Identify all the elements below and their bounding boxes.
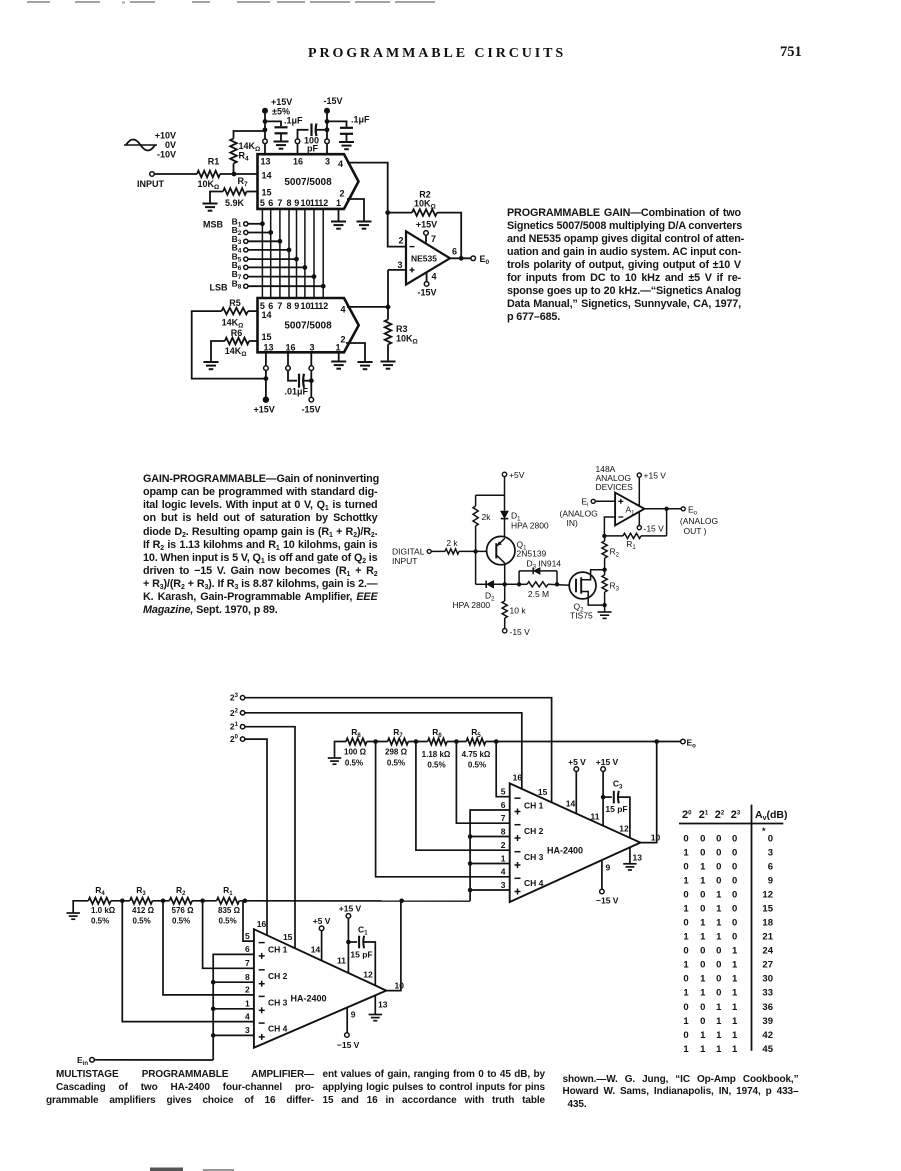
junction: output node (upper) <box>654 739 659 744</box>
svg-text:IN): IN) <box>567 518 579 528</box>
svg-text:0.5%: 0.5% <box>219 917 237 926</box>
svg-text:8: 8 <box>501 826 506 836</box>
svg-text:0: 0 <box>700 890 705 901</box>
svg-text:15: 15 <box>261 332 271 342</box>
svg-text:5007/5008: 5007/5008 <box>284 321 332 332</box>
svg-text:0: 0 <box>716 960 721 971</box>
wire: U2 pin 16 to cap <box>287 352 289 366</box>
wire: R6/R5 node to upper pin 7 <box>456 742 509 824</box>
junction: pin3/cap <box>309 378 314 383</box>
svg-text:LSB: LSB <box>210 283 229 293</box>
svg-text:0.5%: 0.5% <box>387 759 405 768</box>
wire: B6 to bus line 6 <box>248 266 305 268</box>
svg-text:3: 3 <box>325 157 330 167</box>
resistor R7 298 ohm <box>388 738 409 744</box>
svg-text:1: 1 <box>700 1030 706 1041</box>
node INPUT terminal <box>150 172 155 177</box>
wire: R5 node to upper pin 5 <box>496 742 510 797</box>
resistor R2 10K <box>412 209 437 216</box>
truth table vertical rule <box>751 805 753 1051</box>
svg-text:0: 0 <box>716 974 721 985</box>
polarity + pin 1 lower <box>259 1009 265 1011</box>
junction: R3/R2 node <box>161 899 166 904</box>
wire: R8-R7 <box>367 741 388 743</box>
svg-text:6: 6 <box>268 198 273 208</box>
node: plug terminal pin13 <box>263 139 268 144</box>
svg-text:DIGITAL: DIGITAL <box>392 547 425 557</box>
svg-text:16: 16 <box>285 343 295 353</box>
svg-text:576 Ω: 576 Ω <box>172 906 195 915</box>
node Eo output terminal <box>471 256 476 261</box>
svg-text:CH 3: CH 3 <box>524 852 544 862</box>
wire: R6 left to ground <box>211 341 225 362</box>
pin 10 output upper <box>640 742 656 843</box>
svg-text:2: 2 <box>245 985 250 995</box>
capacitor C1 15pF <box>348 941 357 943</box>
resistor 2k (pull-up left branch) <box>475 495 477 506</box>
svg-text:OUT ): OUT ) <box>684 526 707 536</box>
svg-text:0: 0 <box>732 932 737 943</box>
svg-text:DEVICES: DEVICES <box>596 482 634 492</box>
junction: feedback node R2 left <box>385 210 390 215</box>
wire: R1 to chip1 pin 14 <box>220 173 258 175</box>
svg-text:CH 2: CH 2 <box>524 826 544 836</box>
svg-text:7: 7 <box>245 958 250 968</box>
wire: R2 to output node <box>437 213 461 259</box>
polarity + pin 3 lower <box>259 1036 265 1038</box>
svg-text:10KΩ: 10KΩ <box>414 199 436 211</box>
wire: bus stub pin 1 <box>470 863 510 865</box>
wire: A1 output <box>644 508 681 510</box>
svg-text:+10V: +10V <box>155 131 176 141</box>
node 2^2 control terminal <box>240 711 244 715</box>
DAC U2 5007/5008 body <box>258 298 359 352</box>
wire: B1 to bus line 1 <box>248 223 263 225</box>
resistor 2k (input) <box>445 549 459 554</box>
pin 14 supply lower +5V <box>321 931 323 961</box>
svg-text:5: 5 <box>245 931 250 941</box>
svg-text:HA-2400: HA-2400 <box>291 994 327 1004</box>
wire: chip2 pin4 to node <box>347 306 388 308</box>
svg-text:.01μF: .01μF <box>285 387 309 397</box>
svg-text:9: 9 <box>768 875 773 886</box>
wire: bus stub lower pin 1 <box>213 1008 254 1010</box>
node B5 input terminal <box>244 257 248 261</box>
svg-text:1: 1 <box>716 1030 722 1041</box>
svg-text:4: 4 <box>501 867 506 877</box>
polarity - pin 2 upper <box>515 851 521 853</box>
junction: B6/bus <box>303 265 308 270</box>
svg-text:1: 1 <box>732 1044 738 1055</box>
svg-text:1: 1 <box>683 1016 689 1027</box>
svg-text:1.0 kΩ: 1.0 kΩ <box>91 906 116 915</box>
ground (R3) <box>381 361 396 363</box>
A1 plus sign <box>618 500 623 502</box>
wire: ladder ground stub <box>335 742 347 758</box>
wire: B3 to bus line 3 <box>248 240 280 242</box>
wire: lower plus-input bus <box>213 954 254 1060</box>
wire: U2 pin 2 to ground <box>346 343 365 362</box>
svg-text:0: 0 <box>700 1002 705 1013</box>
svg-text:7: 7 <box>501 813 506 823</box>
wire: 2^0 to lower pin 16 <box>245 739 267 935</box>
svg-text:+15V: +15V <box>416 220 437 230</box>
junction: output/feedback <box>459 256 464 261</box>
pin 14 supply upper +5V <box>575 771 577 813</box>
wire: R7-R6 <box>408 741 427 743</box>
op-amp NE535 body <box>406 231 450 284</box>
wire: input to R1 <box>154 173 197 175</box>
junction: B2/bus <box>268 230 273 235</box>
svg-text:CH 1: CH 1 <box>524 801 544 811</box>
svg-text:R5: R5 <box>229 298 241 308</box>
svg-text:42: 42 <box>762 1030 773 1041</box>
wire: ladder to Eo <box>486 741 681 743</box>
svg-text:3: 3 <box>309 343 314 353</box>
svg-text:1: 1 <box>700 861 706 872</box>
svg-text:1: 1 <box>700 988 706 999</box>
svg-text:0.5%: 0.5% <box>133 917 151 926</box>
AC input sine-wave source symbol <box>124 144 157 146</box>
svg-text:5: 5 <box>501 787 506 797</box>
wire: 2k to Q1 base <box>459 550 487 552</box>
diode D1 HPA2800 <box>501 511 509 518</box>
node Eo terminal (c2) <box>681 507 685 511</box>
svg-text:1: 1 <box>336 198 341 208</box>
node B3 input terminal <box>244 239 248 243</box>
junction: lbus/pin3 <box>211 1033 216 1038</box>
svg-text:11: 11 <box>337 956 346 966</box>
svg-text:0: 0 <box>732 918 737 929</box>
svg-text:0: 0 <box>683 1002 688 1013</box>
wire: 2^2 to upper pin 16 <box>245 713 522 789</box>
svg-text:0: 0 <box>683 974 688 985</box>
page header: PROGRAMMABLE CIRCUITS <box>308 46 557 62</box>
svg-text:1: 1 <box>716 1044 722 1055</box>
wire: R5 left to +15V node <box>192 311 266 379</box>
svg-text:INPUT: INPUT <box>392 556 418 566</box>
svg-text:14KΩ: 14KΩ <box>225 346 247 358</box>
svg-text:1.18 kΩ: 1.18 kΩ <box>422 750 451 759</box>
ground (U2 pin1) <box>331 361 346 363</box>
svg-text:1: 1 <box>732 960 738 971</box>
wire: lower ladder ground stub <box>73 901 88 913</box>
svg-text:45: 45 <box>762 1044 773 1055</box>
svg-text:100 Ω: 100 Ω <box>344 748 367 757</box>
wire: +15V to A1 <box>638 477 640 505</box>
junction: R5 right node <box>494 739 499 744</box>
svg-text:Ei: Ei <box>582 497 589 509</box>
polarity - pin 5 lower <box>259 942 265 944</box>
svg-text:0: 0 <box>716 946 721 957</box>
junction: lbus/pin8 <box>211 980 216 985</box>
wire: +15V supply rail <box>264 111 266 139</box>
junction: B7/bus <box>312 274 317 279</box>
wire: data bus vertical lines pins 5-12 <box>261 209 263 298</box>
svg-text:36: 36 <box>762 1002 773 1013</box>
svg-text:0: 0 <box>716 988 721 999</box>
svg-text:+15 V: +15 V <box>644 471 667 481</box>
diode D2 HPA2800 <box>485 581 487 588</box>
wire: D3 branch <box>519 570 533 572</box>
svg-text:1: 1 <box>683 904 689 915</box>
svg-text:0.5%: 0.5% <box>468 761 486 770</box>
svg-text:15: 15 <box>261 188 271 198</box>
polarity - pin 5 upper <box>515 797 521 799</box>
junction: R1/R4/pin14 node <box>232 172 237 177</box>
svg-text:3: 3 <box>245 1025 250 1035</box>
svg-text:R7: R7 <box>393 727 403 739</box>
svg-text:12: 12 <box>363 970 373 980</box>
wire: R4 top to +15V rail <box>234 131 266 139</box>
wire: U2 pin 1 to ground <box>338 352 340 361</box>
svg-text:0: 0 <box>732 847 737 858</box>
node B1 input terminal <box>244 222 248 226</box>
svg-text:NE535: NE535 <box>411 254 437 264</box>
truth table header rule <box>679 823 783 825</box>
svg-text:0: 0 <box>716 875 721 886</box>
ground (right bypass cap) <box>339 141 354 143</box>
wire: rail to bypass cap C-b <box>327 121 347 126</box>
svg-text:2: 2 <box>340 335 345 345</box>
wire: U1 pin 16 to plug <box>297 144 299 155</box>
svg-text:1: 1 <box>501 853 506 863</box>
svg-text:3: 3 <box>397 260 402 270</box>
wire: bus stub lower pin 3 <box>213 1034 254 1036</box>
junction: R7/R6 node <box>414 739 419 744</box>
wire: node to R2 <box>388 212 412 214</box>
svg-text:1: 1 <box>683 960 689 971</box>
svg-text:8: 8 <box>286 301 291 311</box>
svg-text:R1: R1 <box>626 539 636 551</box>
svg-text:412 Ω: 412 Ω <box>132 906 155 915</box>
A1 minus sign <box>618 516 623 518</box>
svg-text:0: 0 <box>732 861 737 872</box>
svg-text:Eo: Eo <box>687 737 697 749</box>
junction: B1/bus <box>260 221 265 226</box>
svg-text:−15 V: −15 V <box>337 1040 360 1050</box>
svg-text:5007/5008: 5007/5008 <box>284 177 332 188</box>
wire: U1 pin 3 to plug <box>326 144 328 155</box>
wire: pin16 plug up to 100pF <box>298 130 309 139</box>
wire: left branch to D2 <box>476 583 486 585</box>
svg-text:HPA 2800: HPA 2800 <box>511 521 549 531</box>
ground (R6) <box>204 361 219 363</box>
transistor Q2 TIS75 JFET <box>569 572 596 599</box>
DAC U1 5007/5008 body <box>258 154 359 209</box>
power +15V terminal (A1) <box>637 473 641 477</box>
resistor R1 (c2) <box>641 535 667 537</box>
svg-text:0: 0 <box>716 847 721 858</box>
capacitor .1uF (left bypass) <box>275 126 288 128</box>
wire: digital input to 2k <box>431 550 445 552</box>
svg-text:4: 4 <box>340 305 345 315</box>
svg-text:1: 1 <box>716 1002 722 1013</box>
svg-text:.1μF: .1μF <box>351 115 370 125</box>
power -15V terminal (c2) <box>503 629 507 633</box>
ground (Q2/R3) <box>598 611 612 613</box>
svg-text:2 k: 2 k <box>446 538 458 548</box>
svg-text:0: 0 <box>700 1016 705 1027</box>
svg-text:8: 8 <box>286 198 291 208</box>
svg-text:5.9K: 5.9K <box>225 198 245 208</box>
svg-text:Eo: Eo <box>688 504 698 516</box>
svg-text:0: 0 <box>732 904 737 915</box>
power +15V terminal <box>262 108 268 114</box>
svg-text:22: 22 <box>230 708 239 718</box>
node B4 input terminal <box>244 248 248 252</box>
svg-text:39: 39 <box>762 1016 773 1027</box>
node B6 input terminal <box>244 265 248 269</box>
svg-text:-15 V: -15 V <box>510 627 531 637</box>
svg-text:1: 1 <box>732 1002 738 1013</box>
svg-text:0: 0 <box>768 833 773 844</box>
pin 11 supply lower +15V <box>347 918 349 973</box>
polarity + pin 1 upper <box>515 864 521 866</box>
svg-text:12: 12 <box>762 890 773 901</box>
svg-text:4.75 kΩ: 4.75 kΩ <box>462 750 491 759</box>
junction: pin11/C1 <box>346 940 351 945</box>
capacitor .1uF (right bypass) <box>340 127 353 129</box>
svg-text:CH 1: CH 1 <box>268 944 288 954</box>
ground (R4 ladder) <box>67 912 80 914</box>
wire: U1 pin 2 to ground <box>347 199 364 221</box>
ground (U1 pin 1) <box>331 221 346 223</box>
svg-text:0: 0 <box>700 904 705 915</box>
svg-text:3: 3 <box>768 847 773 858</box>
svg-text:20: 20 <box>230 734 239 744</box>
junction: R8/R7 node <box>373 739 378 744</box>
pin 9 supply upper -15V <box>601 860 603 889</box>
node: plug terminal pin16 <box>295 139 300 144</box>
resistor R1 <box>197 171 220 178</box>
resistor R7 5.9K <box>223 188 247 195</box>
pin 7 supply NE535 <box>425 235 427 243</box>
svg-text:HPA 2800: HPA 2800 <box>453 600 491 610</box>
wire: B7 to bus line 7 <box>248 276 314 278</box>
node 2^0 control terminal <box>240 737 244 741</box>
svg-text:14: 14 <box>261 171 271 181</box>
polarity + pin 6 lower <box>259 955 265 957</box>
resistor R1 835 ohm <box>217 898 240 904</box>
junction: output/feedback (c2) <box>664 507 668 511</box>
wire: bus stub pin 3 <box>470 889 510 891</box>
op-amp A1 body <box>615 493 644 526</box>
svg-text:14: 14 <box>566 799 576 809</box>
wire: 2^1 to lower pin 15 <box>245 727 295 949</box>
svg-text:0: 0 <box>683 861 688 872</box>
svg-text:10 k: 10 k <box>510 606 527 616</box>
wire: U1 pin 1 to ground <box>338 209 340 221</box>
wire: U2 pin 13 to +15V <box>265 352 267 366</box>
svg-text:Av(dB): Av(dB) <box>755 809 788 822</box>
svg-text:298 Ω: 298 Ω <box>385 748 408 757</box>
svg-text:R2: R2 <box>176 885 186 897</box>
svg-text:16: 16 <box>293 157 303 167</box>
capacitor 100 pF <box>310 124 312 137</box>
svg-text:1: 1 <box>700 1044 706 1055</box>
svg-text:1: 1 <box>335 343 340 353</box>
svg-text:R3: R3 <box>136 885 146 897</box>
svg-text:1: 1 <box>732 1030 738 1041</box>
opamp minus sign <box>410 246 415 248</box>
svg-text:7: 7 <box>277 301 282 311</box>
svg-text:21: 21 <box>230 722 239 732</box>
svg-text:0.5%: 0.5% <box>172 917 190 926</box>
junction: lower pin10 node <box>399 899 404 904</box>
svg-text:E0: E0 <box>480 254 490 266</box>
svg-text:0: 0 <box>732 833 737 844</box>
svg-text:1: 1 <box>732 974 738 985</box>
svg-text:13: 13 <box>260 157 270 167</box>
wire: U2 pin 3 to -15V <box>310 352 312 366</box>
ground (U1 pin 2) <box>357 221 372 223</box>
junction: feedback/R2 node <box>602 534 606 538</box>
junction: B8/bus <box>321 284 326 289</box>
svg-text:6: 6 <box>768 861 773 872</box>
wire: U1 pin 13 to supply plug <box>264 144 266 155</box>
svg-text:0: 0 <box>683 946 688 957</box>
svg-text:+15 V: +15 V <box>596 757 619 767</box>
svg-text:13: 13 <box>633 853 643 863</box>
junction: bus/pin8 <box>468 834 473 839</box>
junction: -15V rail/100pF <box>325 127 330 132</box>
opamp plus sign <box>410 269 415 271</box>
wire: B4 to bus line 4 <box>248 249 289 251</box>
svg-text:0.5%: 0.5% <box>427 761 445 770</box>
wire: B5 to bus line 5 <box>248 258 297 260</box>
svg-text:0: 0 <box>700 946 705 957</box>
svg-text:TIS75: TIS75 <box>570 611 593 621</box>
svg-text:+5V: +5V <box>509 470 525 480</box>
wire: top scan artifact dashes <box>27 1 50 3</box>
junction: source/R3 node <box>602 603 606 607</box>
svg-text:1: 1 <box>245 999 250 1009</box>
junction: -15V rail/cap <box>325 119 330 124</box>
polarity - pin 4 upper <box>515 877 521 879</box>
svg-text:.1μF: .1μF <box>284 116 303 126</box>
ground (R8 ladder) <box>328 757 341 759</box>
pin 13 ground upper <box>629 847 631 863</box>
resistor R6 1.18k <box>428 738 447 744</box>
svg-text:12: 12 <box>619 824 629 834</box>
svg-text:1: 1 <box>716 904 722 915</box>
svg-text:9: 9 <box>294 301 299 311</box>
power +5V terminal <box>502 472 506 476</box>
node Eo terminal (c3) <box>681 739 686 744</box>
svg-text:+15V: +15V <box>254 405 275 415</box>
node Ei input terminal <box>591 499 595 503</box>
svg-text:24: 24 <box>762 946 773 957</box>
svg-text:10KΩ: 10KΩ <box>396 334 418 346</box>
wire: R1 node to lower pin 5 <box>243 901 254 941</box>
svg-text:(ANALOG: (ANALOG <box>560 509 598 519</box>
node B2 input terminal <box>244 230 248 234</box>
svg-text:10: 10 <box>395 981 405 991</box>
svg-text:16: 16 <box>257 919 267 929</box>
svg-text:21: 21 <box>762 932 773 943</box>
capacitor .01uF <box>298 374 300 388</box>
ground (R7) <box>203 203 218 205</box>
wire: A1 -input to feedback node <box>604 517 615 536</box>
svg-text:1: 1 <box>716 890 722 901</box>
resistor R3 412 ohm <box>130 898 153 904</box>
svg-text:C1: C1 <box>358 925 368 937</box>
node DIGITAL INPUT terminal <box>427 549 431 553</box>
svg-text:1: 1 <box>700 974 706 985</box>
svg-text:R1: R1 <box>208 157 220 167</box>
svg-text:0: 0 <box>683 918 688 929</box>
